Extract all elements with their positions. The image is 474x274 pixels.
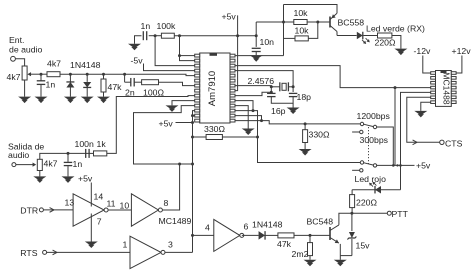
resistor 220ohm (led verde) [378,33,392,38]
resistor 100ohm [142,80,159,85]
label Salida de audio [8,142,44,161]
ground (1n top) [128,44,141,49]
wire 47k to base [294,234,330,236]
node 330R right tap [256,136,259,139]
svg-text:-12v: -12v [414,46,432,56]
node base-wire cross [282,21,285,24]
wire vert bus x192 pin12L [193,111,195,253]
resistor 220ohm (led rojo) [350,195,355,208]
wire collector to LED [337,35,357,37]
wire branch A to +5v line [394,88,396,166]
wire +12v to pin1R 1488 [456,56,462,74]
IC U3 MC1488 [431,71,456,107]
wire audio to pin5L [104,74,195,75]
svg-text:47k: 47k [108,82,123,92]
wire collector up [339,213,352,225]
ground (pin11R) [242,129,255,134]
stub contact upper [352,130,363,133]
wire led rojo line [352,189,400,191]
crystal X1 2.4576MHz [271,82,293,91]
svg-text:1N4148: 1N4148 [70,60,101,70]
wire 100ohm to pin7L [159,82,195,85]
node +5v tap [191,121,194,124]
node 330R left [191,136,194,139]
svg-text:13: 13 [65,198,75,208]
wire 2n to 100ohm [134,81,141,83]
svg-text:Led verde (RX): Led verde (RX) [366,24,425,34]
wire 10k lower left lead [284,37,296,39]
wire D2 stem [86,74,88,82]
ground (input pot) [18,97,31,102]
wire pot to ground [24,80,26,97]
svg-text:+5v: +5v [416,161,431,171]
node 1n input cap [40,73,43,76]
node pin1L branch [178,54,181,57]
svg-text:100k: 100k [157,21,176,31]
wire top emitter run [284,5,338,14]
capacitor 18p [289,92,298,94]
ground (output pot) [33,176,46,181]
node diode D2 [86,73,89,76]
svg-text:DTR: DTR [20,205,38,215]
wire pin14R to upper switch [235,121,360,124]
svg-text:14: 14 [94,192,104,202]
node 10k right [316,21,319,24]
wire pin10L to ground [172,101,195,106]
wire zener bottom link [340,255,352,257]
diode D3 1N4148 [259,231,266,240]
node switch vert on +5v [392,164,395,167]
LED verde (RX) [357,32,370,44]
node A on +5v line [396,164,398,166]
svg-text:4: 4 [205,223,210,233]
power +5v lead [237,15,239,35]
resistor 330ohm vertical [303,130,308,143]
wire -12v to pin1L 1488 [423,56,431,74]
svg-text:1n: 1n [73,159,83,169]
svg-text:4k7: 4k7 [47,59,61,69]
node pin13L join [191,114,194,117]
node B on +5v line [399,164,402,167]
ground (D2) [81,97,94,102]
node 2n tap on audio line [123,73,126,76]
ground (D1) [64,97,77,102]
wire RTS w arrow [47,250,130,255]
svg-text:47k: 47k [277,239,292,249]
wire pin14 inside gate [90,183,92,207]
wire input to pot [15,59,24,66]
wire pin1R to base vertical [235,55,284,57]
svg-text:330Ω: 330Ω [204,124,225,134]
svg-text:18p: 18p [297,92,312,102]
svg-text:11: 11 [107,199,116,209]
wire 1n to ground [40,84,42,96]
svg-text:8: 8 [164,198,169,208]
wire pin13R join [235,116,262,121]
wire pin7L 1488 to ground [421,102,431,111]
wire 2n lead [125,81,131,83]
node pin13R join [260,119,263,122]
node gate4 input tap [191,234,194,237]
capacitor 16p [267,92,276,94]
zener D4 15v [347,213,356,255]
svg-text:10k: 10k [294,8,309,18]
resistor 10k lower [295,36,308,41]
node 2m2 tap [309,234,312,237]
svg-text:RTS: RTS [20,248,37,258]
svg-text:2m2: 2m2 [292,249,309,259]
resistor 47k shunt [101,79,106,92]
wire diode to 47k [265,234,278,236]
ground (2m2) [304,260,317,265]
wire rail to ground [292,103,294,107]
capacitor 1n (output) [64,161,73,163]
diode D2 1N4148 down [83,82,91,88]
wire vert 100k right to pins 1L/2L [180,36,195,61]
svg-text:330Ω: 330Ω [309,130,330,140]
node 10n top [255,34,258,37]
ground (10n) [250,55,263,60]
gate U2B MC1489 (10-8) [131,194,158,226]
resistor 2m2 [308,243,313,256]
svg-text:1n: 1n [141,21,151,31]
label Ent. de audio [9,35,43,55]
wire 10n to ground [255,52,257,56]
svg-text:-5v: -5v [131,56,144,66]
potentiometer P1 4k7 (input) [22,66,33,80]
wire 1n-100k left to ground elbow [135,36,142,44]
wire gate1 to gate2 [108,209,131,211]
switch SW1 lower (300bps) [360,161,376,167]
wire pin5L 1488 to led rojo [401,92,431,189]
wire 100n to 1k [89,152,93,154]
gate U2C MC1489 (1-3) [130,236,161,268]
wire 10k lower right lead [308,22,318,38]
ground (led verde) [394,49,407,54]
wire 100k to +5v node [174,35,237,37]
svg-text:300bps: 300bps [360,135,389,145]
node bus tap 164 [191,163,194,166]
wire upper switch to +5v line [377,127,394,165]
svg-text:2.4576: 2.4576 [248,76,275,86]
wire pin7 to ground [90,214,92,242]
svg-text:+5v: +5v [78,174,93,184]
wire 1n cap stem [40,74,42,81]
wire vert node A to pin3L [155,36,195,66]
wire D1 stem [69,74,71,82]
svg-text:+5v: +5v [222,12,237,22]
svg-text:+12v: +12v [452,46,472,56]
wire 18p stem [292,87,294,92]
wire PTT [352,212,387,214]
wire 2n tap down [124,74,126,82]
wire base vertical x283 [283,5,285,56]
svg-text:MC1489: MC1489 [159,216,192,226]
wire +5v chip bottom lead [176,122,193,124]
wire 16p stem [270,87,272,92]
wire pin4R to crystal right [235,71,293,87]
wire 220R bottom [351,208,353,214]
wire pin10R to lower switch [235,101,360,163]
node pin12R join [252,109,255,112]
wire pin13L join [193,115,195,117]
ground (gate1 pin7) [85,242,98,247]
ground (47k) [97,97,110,102]
wire pin7R to crystal left [235,86,271,87]
ground (MC1488) [414,111,427,116]
svg-text:220Ω: 220Ω [375,38,396,48]
wire D2 to ground [86,88,88,97]
wire pin6L 1488 to CTS [407,97,440,142]
svg-text:audio: audio [8,150,29,160]
node 1n salida [67,152,70,155]
terminal CTS [440,140,444,144]
svg-text:3: 3 [168,240,173,250]
switch link dotted [368,127,370,164]
terminal RTS [43,250,47,254]
ground (crystal) [287,108,300,113]
wire 330R right lead [222,136,257,138]
svg-text:MC1488: MC1488 [442,72,452,104]
svg-text:Ent.: Ent. [9,35,24,45]
wire pin3R to MC1488 pin4L [235,66,431,88]
ground (1n input) [35,97,48,102]
wire 10n elbow up to base wire [255,22,257,36]
node 16p top join [270,91,273,94]
resistor 1k [94,151,107,156]
diode D1 1N4148 up [66,82,74,88]
node gate2 vert tap [178,163,181,166]
wire bus to gate4 [193,234,214,236]
wire DTR w arrow [43,208,73,213]
wire 4k7 to diodes [60,73,104,75]
terminal Salida [12,163,16,167]
svg-text:+5v: +5v [159,118,174,128]
svg-text:1k: 1k [97,139,107,149]
wire 1n salida stem [67,153,69,162]
potentiometer P2 4k7 (output) [37,159,42,170]
gate U2A MC1489 (13-11) [73,194,104,226]
wire base wire [256,21,330,23]
wire 220R top to led line [351,190,353,195]
wire 2m2 to ground [309,256,311,260]
wire 10n rail [238,35,257,37]
resistor 330ohm horizontal [206,135,222,140]
svg-text:7: 7 [97,217,102,227]
wire 47k stem [103,74,105,79]
node 330ohm vert tap [304,122,307,125]
svg-text:4k7: 4k7 [7,72,21,82]
wire 330ohm vert to ground [304,143,306,150]
wire 330ohm vert stem [304,124,306,130]
svg-text:1: 1 [123,240,128,250]
wire 2m2 stem [309,235,311,242]
svg-text:PTT: PTT [392,209,409,219]
wire 10n cap stem [255,36,257,47]
svg-text:BC548: BC548 [307,217,334,227]
svg-text:10n: 10n [260,37,275,47]
capacitor 100n [85,149,87,158]
stub contact lower [352,169,363,172]
wire emitter down [339,244,341,256]
arrow CTS [413,142,417,144]
transistor Q2 BC548 NPN [330,225,339,243]
capacitor 10n [252,47,261,49]
wire -5v to pin4L [144,64,195,71]
svg-text:1N4148: 1N4148 [252,220,283,230]
wire salida to pot [16,164,33,166]
svg-text:100n: 100n [75,139,94,149]
wire 47k to ground [103,92,105,97]
wire 330R left lead [193,136,207,138]
terminal PTT [387,211,391,215]
arrow into pot (salida) [33,163,37,167]
resistor 4k7 series [47,72,60,77]
capacitor 1n (input) [37,80,46,82]
wire gate3 out to bus [165,251,192,253]
wire pin11R to ground [235,106,248,129]
svg-text:16p: 16p [271,106,286,116]
svg-text:CTS: CTS [445,138,463,148]
node crystal right [292,85,295,88]
wire gate4 to diode [242,234,259,236]
capacitor 2n [130,78,132,87]
gate U2D MC1489 (4-6) [214,219,240,251]
svg-text:10k: 10k [295,26,310,36]
wire LED to 220R [364,35,378,37]
wire emitter to ground [339,256,341,260]
wire D1 to ground [69,88,71,97]
wire audio line [33,73,47,75]
wire 1n salida to ground [67,166,69,176]
wire pin1L branch [180,55,195,57]
wire pot2 top [40,153,90,159]
resistor 100k [161,33,174,38]
transistor Q1 BC558 PNP [330,13,337,35]
node 47k [102,73,105,76]
wire gate2 out vertical [162,164,179,210]
svg-text:1n: 1n [46,80,56,90]
wire xtal cap rail [271,97,293,104]
node 1n/100k A [154,34,157,37]
wire pin11L to gate2 output [134,106,195,164]
wire pin12R join [235,110,253,112]
wire 1k up to pin9L [107,96,195,154]
ground (1n output) [62,176,75,181]
wire cap to node [149,35,162,37]
svg-text:10: 10 [120,201,130,211]
svg-text:6: 6 [244,222,249,232]
node +5v/10n rail [236,34,239,37]
wire +5v rail down to pin8R [235,36,238,91]
IC U1 Am7910 [195,53,235,123]
svg-text:BC558: BC558 [338,18,365,28]
terminal DTR [39,208,43,212]
wire pin9R to 16p node [235,92,271,95]
ground (emitter) [334,260,347,265]
wire +5v line [377,164,415,166]
node crystal left [270,85,273,88]
resistor 47k (base) [278,233,294,238]
switch SW1 upper (1200bps) [360,122,376,128]
svg-text:de audio: de audio [9,45,43,55]
ground (pin10L) [166,105,179,110]
svg-text:Am7910: Am7910 [207,71,218,106]
capacitor 1n (AGC) [142,31,144,40]
terminal Ent. de audio [11,56,16,61]
svg-text:220Ω: 220Ω [356,198,377,208]
LED rojo [369,182,381,194]
wire pot2 to ground [39,171,41,177]
node 100k right [178,34,181,37]
svg-text:15v: 15v [356,241,371,251]
ground (330ohm vert) [299,149,312,154]
node collector junction [350,212,353,215]
node diode D1 [69,73,72,76]
svg-text:1200bps: 1200bps [357,111,391,121]
node MC1488 4L branch [394,86,397,89]
svg-text:Led rojo: Led rojo [355,174,387,184]
wire 220R to ground [392,36,401,49]
svg-text:4k7: 4k7 [44,159,58,169]
resistor 10k upper [294,20,307,25]
